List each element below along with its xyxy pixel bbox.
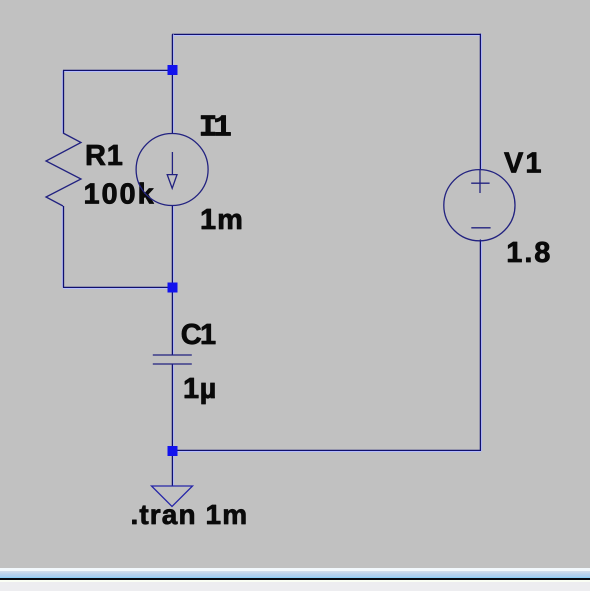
junction node middle <box>168 283 178 293</box>
wire right lower vertical <box>480 240 481 452</box>
svg-text:C1: C1 <box>181 319 216 351</box>
window bottom chrome <box>0 568 590 591</box>
wire right upper vertical <box>480 34 481 170</box>
current source I1 <box>136 134 208 206</box>
svg-text:100k: 100k <box>84 179 156 211</box>
wire bottom horizontal <box>172 450 481 451</box>
label V1 <box>504 148 543 180</box>
wire left loop top horizontal <box>63 70 172 71</box>
voltage source V1 <box>444 170 515 241</box>
svg-text:R1: R1 <box>85 140 124 172</box>
svg-text:V1: V1 <box>504 148 543 180</box>
svg-text:1.8: 1.8 <box>506 237 552 269</box>
svg-text:I1: I1 <box>199 111 232 146</box>
wire left loop upper vertical <box>62 70 63 133</box>
value 100k <box>84 179 156 211</box>
wire left branch top vertical <box>172 34 173 134</box>
svg-text:1µ: 1µ <box>183 373 217 405</box>
wire left loop bottom horizontal <box>63 287 172 288</box>
capacitor C1 <box>153 355 192 364</box>
value 1.8 <box>506 237 552 269</box>
value 1µ <box>183 373 217 405</box>
junction node top <box>168 65 178 75</box>
wire junction to capacitor top <box>172 288 173 355</box>
resistor R1 <box>46 133 81 206</box>
wire top horizontal <box>172 34 481 35</box>
ground <box>152 486 193 507</box>
svg-text:1m: 1m <box>200 204 244 236</box>
label R1 <box>85 140 124 172</box>
directive .tran 1m <box>131 499 249 530</box>
wire junction to ground <box>172 451 173 486</box>
wire capacitor bottom to junction <box>172 364 173 451</box>
label C1 <box>181 319 216 351</box>
svg-text:.tran 1m: .tran 1m <box>131 499 249 530</box>
value 1m <box>200 204 244 236</box>
wire I1 bottom to junction <box>172 206 173 288</box>
junction node bottom <box>168 446 178 456</box>
wire left loop lower vertical <box>62 206 63 287</box>
label I1 <box>199 111 232 146</box>
